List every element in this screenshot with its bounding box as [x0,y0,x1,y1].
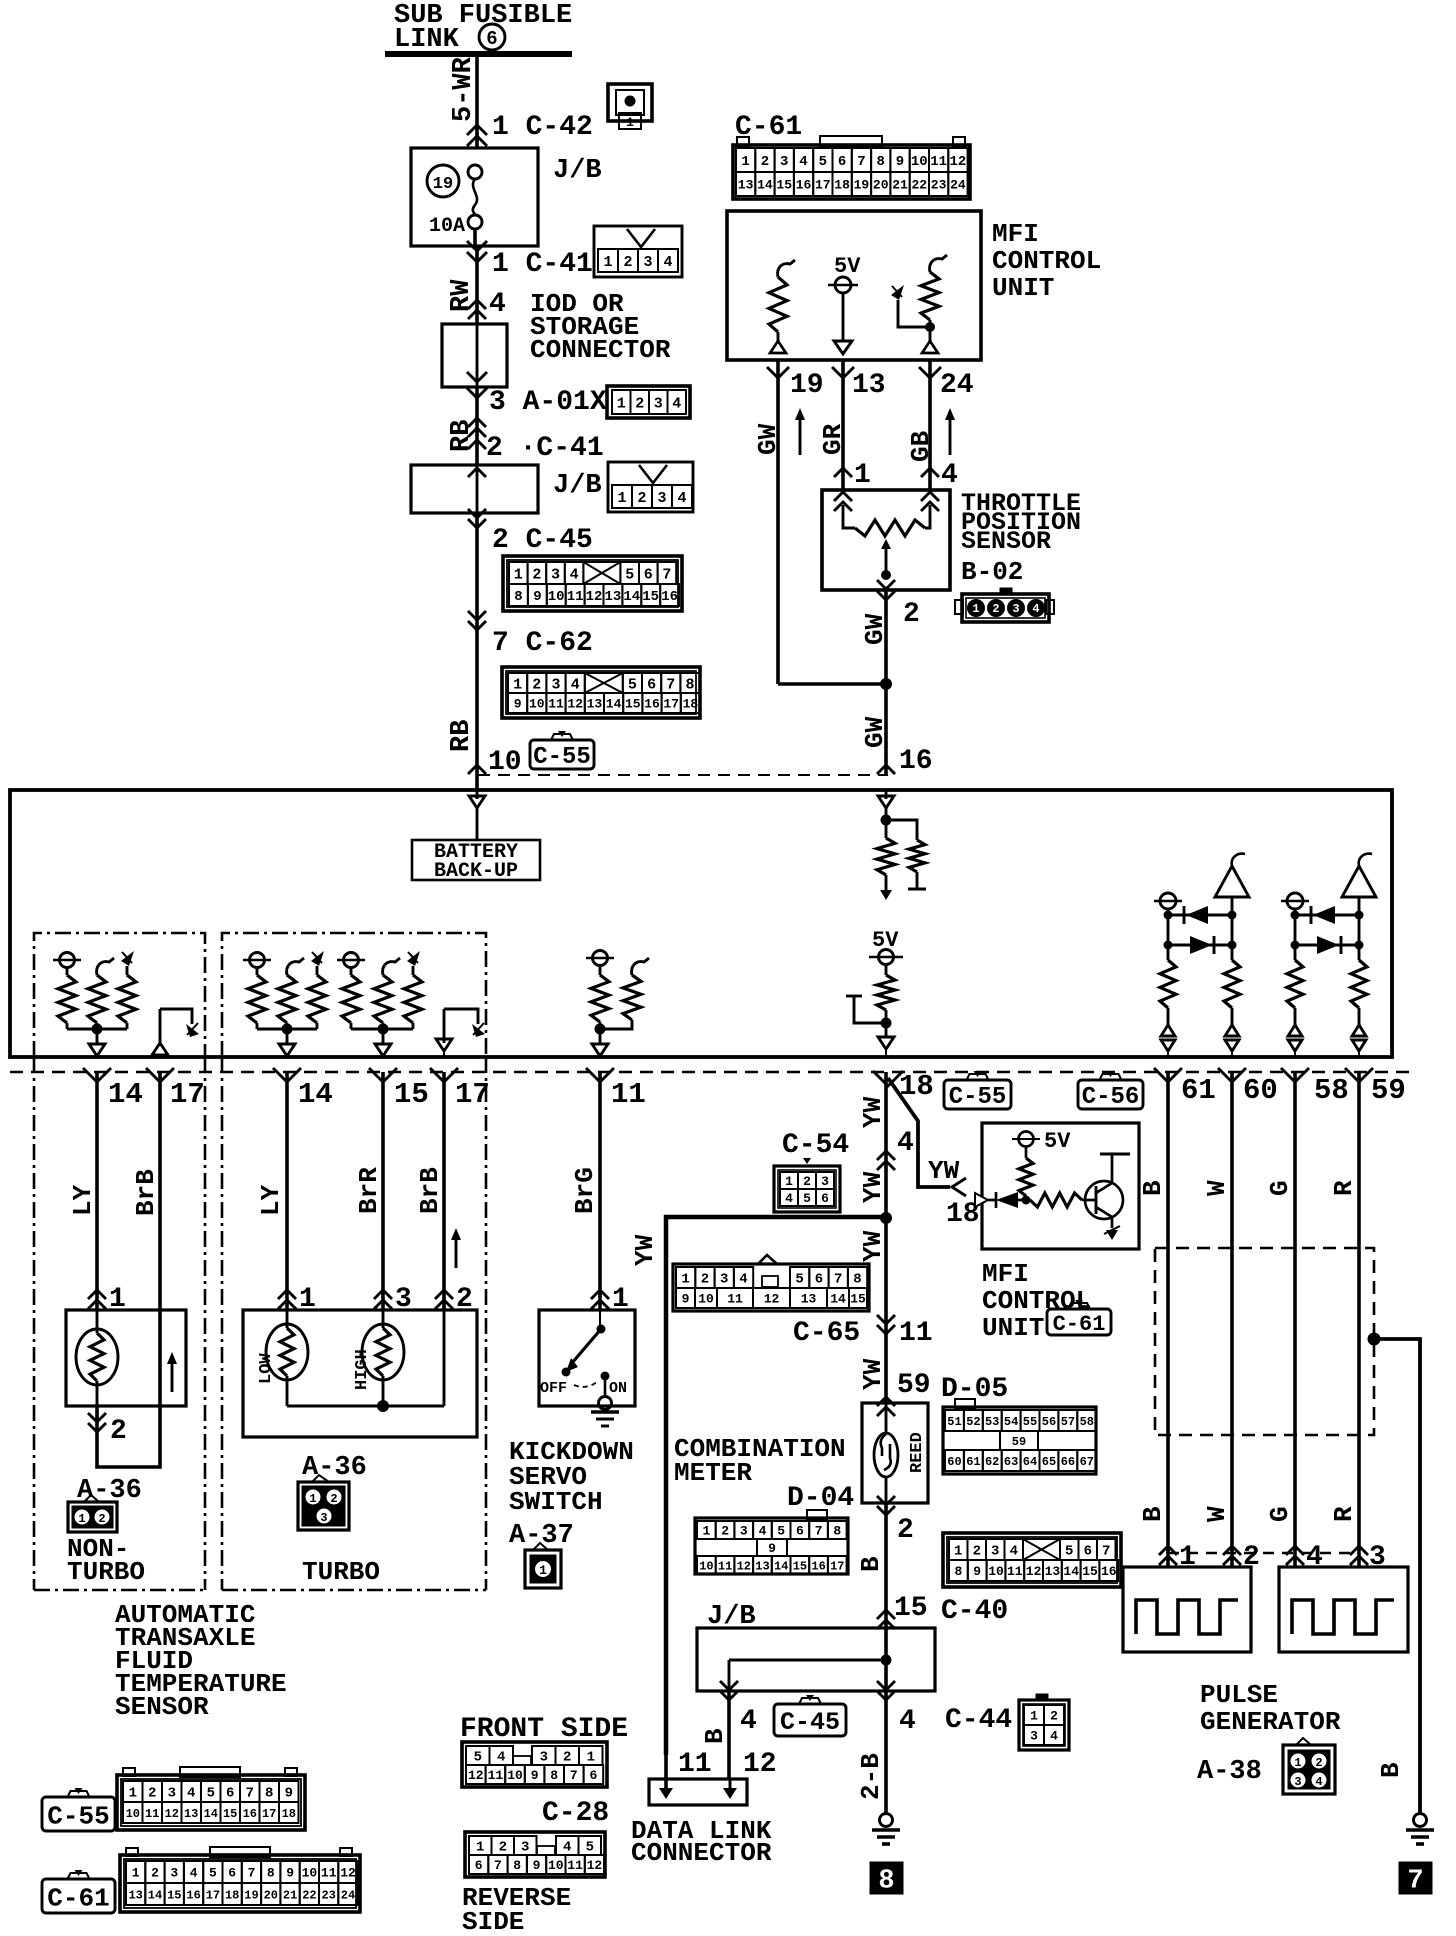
svg-text:2 C-45: 2 C-45 [492,525,593,556]
svg-text:16: 16 [186,1888,200,1902]
svg-text:CONTROL: CONTROL [992,246,1101,276]
connector mark 2 reed [877,1506,895,1515]
svg-text:8: 8 [876,154,884,170]
svg-text:7: 7 [570,1768,578,1783]
svg-text:5: 5 [803,1191,811,1206]
hook terminal 17 non-turbo [152,1043,168,1055]
chain line turbo right [485,1057,488,1590]
svg-text:64: 64 [1023,1455,1037,1469]
svg-text:5: 5 [209,1866,217,1881]
svg-text:3: 3 [740,1524,748,1539]
svg-text:15: 15 [394,1078,429,1111]
svg-text:YW: YW [858,1230,888,1262]
svg-text:4: 4 [497,1750,505,1766]
svg-text:3: 3 [521,1840,529,1856]
svg-text:9: 9 [973,1564,981,1579]
svg-text:22: 22 [911,178,927,193]
svg-text:2: 2 [1050,1709,1058,1724]
connector mark 10 C-55 [468,765,486,774]
svg-text:58: 58 [1080,1415,1094,1429]
connector icon C-62 [502,667,700,718]
connector mark TPS pin1 [834,468,852,477]
svg-text:C-65: C-65 [793,1318,860,1349]
connector icon A-36 turbo [312,1475,329,1482]
connector icon C-54 [803,1158,811,1164]
svg-text:51: 51 [947,1415,961,1429]
wire 2-B ground [884,1691,888,1814]
node meter top [880,1212,892,1224]
svg-text:67: 67 [1080,1455,1094,1469]
connector mark 7 C-62 [468,621,486,630]
svg-text:4: 4 [563,1840,571,1856]
svg-text:10: 10 [302,1866,318,1881]
svg-text:15: 15 [850,1292,866,1307]
svg-text:62: 62 [985,1455,999,1469]
svg-text:7: 7 [857,154,865,170]
svg-text:C-45: C-45 [780,1708,840,1737]
pulse wave 1 [1136,1600,1238,1634]
svg-text:6: 6 [228,1866,236,1881]
svg-text:3: 3 [551,676,560,693]
svg-text:1: 1 [1030,1709,1038,1724]
svg-text:R: R [1329,1506,1359,1522]
wire LY non-turbo [95,1072,99,1310]
svg-text:6: 6 [1084,1544,1092,1560]
svg-text:14: 14 [298,1078,333,1111]
svg-text:1: 1 [681,1272,689,1288]
svg-text:12: 12 [949,154,966,170]
svg-text:10: 10 [988,1564,1004,1579]
svg-text:60: 60 [947,1455,961,1469]
svg-text:BrR: BrR [354,1167,384,1214]
svg-text:12: 12 [1026,1564,1042,1579]
terminal 16 out [885,1023,888,1036]
ground 7 [1414,1814,1427,1827]
connector icon C-61 top [737,137,749,146]
svg-text:24: 24 [940,370,974,401]
connector mark A-36NT pin1 [88,1290,106,1299]
svg-text:13: 13 [755,1559,769,1573]
connector icon A-36 non-turbo [84,1495,99,1502]
svg-text:1: 1 [617,395,626,412]
connector icon A-37 [533,1543,548,1550]
connector mark TPS pin4 [921,468,939,477]
svg-text:1: 1 [514,566,523,583]
svg-text:4: 4 [740,1706,757,1737]
svg-text:5: 5 [625,566,634,583]
svg-text:B: B [1138,1506,1168,1522]
svg-text:12: 12 [764,1292,780,1307]
svg-text:R: R [1329,1180,1359,1196]
svg-text:11: 11 [678,1749,712,1780]
svg-text:3: 3 [540,1750,548,1766]
svg-text:C-56: C-56 [1082,1084,1140,1111]
svg-text:YW: YW [630,1234,660,1266]
connector tag C-56 band [1100,1074,1122,1080]
svg-text:2 ·C-41: 2 ·C-41 [486,433,604,464]
svg-text:15: 15 [642,589,659,605]
svg-text:6: 6 [589,1768,597,1783]
connector tag C-61 bottom [1068,1303,1090,1309]
svg-text:23: 23 [321,1888,335,1902]
svg-text:63: 63 [1004,1455,1018,1469]
svg-text:6: 6 [226,1786,234,1802]
fuse number circle 19 [427,165,459,197]
wire BrB non-turbo [97,1072,160,1467]
connector mark 4 YW [877,1151,895,1160]
svg-text:17: 17 [663,697,679,712]
svg-text:CONNECTOR: CONNECTOR [631,1838,772,1868]
connector icon C-65 [758,1255,777,1264]
svg-text:2: 2 [761,154,769,170]
svg-text:YW: YW [858,1096,888,1128]
svg-text:7: 7 [1407,1867,1423,1897]
svg-text:4: 4 [759,1524,767,1539]
resistor MFI2 [1025,1147,1028,1158]
svg-text:B-02: B-02 [961,557,1023,587]
svg-text:UNIT: UNIT [982,1313,1044,1343]
svg-text:18: 18 [225,1888,239,1902]
J/B3 internal wire [884,1628,888,1691]
svg-text:8: 8 [833,1524,841,1539]
ATF temp sensor non-turbo box [66,1310,186,1406]
svg-text:2: 2 [532,566,541,583]
svg-text:3: 3 [780,154,788,170]
svg-text:2: 2 [992,602,999,616]
connector mark 16 [877,765,895,774]
svg-text:14: 14 [606,697,622,712]
junction block J/B fuse box [411,148,538,246]
svg-text:13: 13 [1045,1564,1061,1579]
svg-text:13: 13 [128,1888,142,1902]
ground ref 8 [870,1862,903,1894]
harness cut dashed line [10,1071,1412,1074]
svg-text:2: 2 [151,1866,159,1881]
svg-text:SIDE: SIDE [462,1907,524,1936]
svg-text:11: 11 [567,589,584,605]
svg-text:58: 58 [1314,1074,1349,1107]
svg-text:GR: GR [818,423,848,455]
wire G pulse [1293,1072,1297,1567]
wire BrG [598,1072,602,1310]
svg-text:14: 14 [148,1888,162,1902]
svg-text:1: 1 [78,1512,85,1526]
connector marks pulse pins [1159,1546,1177,1555]
svg-text:GW: GW [860,716,890,748]
connector icon C-44 [1036,1694,1048,1701]
direction arrow GB [949,418,952,455]
svg-text:13: 13 [604,589,621,605]
svg-text:5: 5 [819,154,827,170]
connector tag C-61 bottom left [68,1873,90,1879]
chain line non-turbo right [204,1057,207,1590]
connector icon A-38 [1296,1738,1311,1745]
svg-text:20: 20 [873,178,889,193]
svg-text:B: B [1138,1180,1168,1196]
svg-text:2: 2 [897,1515,914,1546]
svg-text:METER: METER [674,1458,752,1488]
svg-text:7: 7 [834,1272,842,1288]
svg-text:4: 4 [899,1706,916,1737]
svg-text:3: 3 [1030,1729,1038,1744]
connector icon C-41 [594,226,682,277]
svg-text:15: 15 [1082,1564,1098,1579]
DLC pin arrows [665,1779,668,1796]
svg-text:8: 8 [267,1866,275,1881]
ATF temp sensor turbo box [243,1310,477,1437]
svg-text:60: 60 [1243,1074,1278,1107]
hook stub 16 [846,995,862,998]
svg-text:11: 11 [930,154,947,170]
sub fusible link bus [385,51,572,57]
svg-text:1: 1 [129,1786,137,1802]
wire RB upper [475,387,479,465]
wire GB from pin24 [928,360,932,490]
wire YW main [884,1072,888,1218]
svg-text:12: 12 [587,1858,603,1873]
svg-text:LY: LY [68,1184,98,1216]
svg-text:A-36: A-36 [302,1453,367,1483]
svg-text:RW: RW [447,279,477,312]
connector mark 3 A-01X [468,418,486,427]
svg-text:W: W [1202,1180,1232,1196]
wire in IOD box [476,324,479,387]
svg-text:BrG: BrG [570,1167,600,1214]
IOD or storage connector box [442,324,507,387]
hook terminal 17 turbo [436,1039,452,1051]
wire YW down to DLC [664,1217,668,1790]
svg-text:SENSOR: SENSOR [961,527,1051,556]
svg-text:10A: 10A [429,215,465,238]
svg-text:2: 2 [148,1786,156,1802]
connector tag C-55 bottom [68,1791,90,1797]
svg-text:2-B: 2-B [856,1753,886,1800]
svg-text:59: 59 [897,1370,931,1401]
svg-text:15: 15 [625,697,641,712]
svg-text:14: 14 [830,1292,846,1307]
svg-text:23: 23 [931,178,947,193]
direction arrow GW [799,418,802,455]
svg-text:9: 9 [531,1768,539,1783]
svg-text:16: 16 [899,746,933,777]
svg-text:GW: GW [753,423,783,455]
svg-text:9: 9 [768,1541,776,1556]
node 16 junction [885,808,888,820]
battery back-up wire [476,808,479,840]
wire RW [475,246,479,324]
svg-text:4: 4 [187,1786,195,1802]
svg-text:11: 11 [718,1559,732,1573]
svg-text:14: 14 [1063,1564,1079,1579]
svg-text:C-61: C-61 [47,1883,109,1913]
svg-text:1 C-41: 1 C-41 [492,249,593,280]
svg-text:BrB: BrB [415,1167,445,1214]
branch YW to MFI2 [888,1078,950,1187]
resistor in MFI pin24 [930,255,947,272]
svg-text:1: 1 [476,1840,484,1856]
connector tag C-55 top [551,734,573,740]
connector marks turbo pins [278,1290,296,1299]
svg-text:66: 66 [1061,1455,1075,1469]
connector icon C-28 reverse [465,1832,605,1877]
svg-text:1: 1 [626,115,634,130]
svg-text:4: 4 [897,1128,914,1159]
svg-text:2: 2 [903,599,920,630]
svg-text:1: 1 [587,1750,595,1766]
svg-text:5: 5 [795,1272,803,1288]
chain line non-turbo left [33,1057,36,1590]
svg-text:3: 3 [657,490,666,507]
connector mark 4 [468,300,486,309]
svg-text:8: 8 [265,1786,273,1802]
kickdown switch [599,1310,601,1329]
svg-text:10: 10 [488,747,522,778]
svg-text:9: 9 [533,1858,541,1873]
svg-text:8: 8 [853,1272,861,1288]
connector mark A-37 pin1 [591,1290,609,1299]
svg-text:1: 1 [741,154,749,170]
svg-text:5: 5 [1065,1544,1073,1560]
svg-text:C-61: C-61 [1053,1312,1106,1337]
svg-text:19: 19 [244,1888,258,1902]
svg-text:A-37: A-37 [509,1521,574,1551]
svg-text:17: 17 [262,1807,276,1821]
svg-text:8: 8 [514,589,522,605]
wire R pulse [1357,1072,1361,1567]
svg-text:LINK: LINK [394,25,460,55]
svg-text:21: 21 [892,178,908,193]
svg-text:2: 2 [623,254,632,271]
svg-text:12: 12 [468,1768,484,1783]
MFI control unit box [727,211,981,360]
svg-text:59: 59 [1371,1074,1406,1107]
connector icon C-41 second [608,462,693,512]
svg-text:2: 2 [563,1750,571,1766]
svg-text:OFF: OFF [540,1380,567,1397]
svg-text:4: 4 [1315,1775,1322,1789]
TPS potentiometer [843,505,855,528]
svg-text:2: 2 [499,1840,507,1856]
svg-text:18: 18 [683,697,699,712]
svg-text:C-44: C-44 [945,1705,1012,1736]
svg-text:19: 19 [854,178,870,193]
svg-text:6: 6 [838,154,846,170]
svg-text:8: 8 [878,1867,894,1897]
svg-text:6: 6 [815,1272,823,1288]
svg-text:2: 2 [803,1174,811,1189]
svg-text:11: 11 [899,1318,933,1349]
svg-text:19: 19 [790,370,824,401]
svg-text:13: 13 [587,697,603,712]
svg-text:11: 11 [548,697,564,712]
wire through J/B2 [476,465,479,513]
connector mark A-36NT pin2 [88,1423,106,1432]
ATF sensor element non-turbo [76,1329,118,1385]
svg-text:11: 11 [488,1768,504,1783]
svg-text:7: 7 [1102,1544,1110,1560]
svg-text:J/B: J/B [553,156,602,186]
connector mark JB3 right out [877,1691,895,1700]
svg-text:17: 17 [206,1888,220,1902]
svg-text:11: 11 [567,1858,583,1873]
svg-text:12: 12 [340,1866,356,1881]
junction block J/B box 2 [411,465,538,513]
ground kickdown [599,1397,612,1410]
diode network pulse gen 1 [1160,893,1176,909]
svg-text:7 C-62: 7 C-62 [492,628,593,659]
pulse generator box 1 [1123,1567,1251,1652]
svg-text:17: 17 [830,1559,844,1573]
connector mark 1 C-41 [467,252,487,262]
svg-text:15: 15 [167,1888,181,1902]
wire YW to reed [884,1334,888,1403]
svg-text:HIGH: HIGH [353,1349,372,1390]
svg-text:11: 11 [145,1807,159,1821]
svg-text:B: B [700,1728,730,1744]
connector icon C-61 bottom [126,1848,138,1856]
connector icon D-05 [955,1399,975,1408]
svg-text:8: 8 [550,1768,558,1783]
svg-text:LOW: LOW [257,1353,276,1384]
svg-text:1 C-42: 1 C-42 [492,112,593,143]
svg-text:8: 8 [954,1564,962,1579]
svg-text:GB: GB [906,430,936,462]
connector marks MFI pins [767,367,789,378]
connector mark 2 C-41 [468,440,486,449]
svg-text:11: 11 [611,1078,646,1111]
svg-text:11: 11 [1007,1564,1023,1579]
resistor 16-c [885,965,888,975]
svg-text:16: 16 [661,589,678,605]
svg-text:5: 5 [207,1786,215,1802]
svg-text:21: 21 [283,1888,297,1902]
svg-text:2: 2 [721,1524,729,1539]
resistor group kickdown [593,951,608,966]
combination meter outline [666,1217,885,1755]
svg-text:16: 16 [796,178,812,193]
wire BrB turbo [442,1072,446,1310]
svg-text:13: 13 [852,370,886,401]
svg-text:3: 3 [720,1272,728,1288]
svg-text:BrB: BrB [131,1169,161,1216]
svg-text:YW: YW [858,1171,888,1203]
svg-text:4: 4 [190,1866,198,1881]
svg-text:C-55: C-55 [533,744,591,771]
svg-text:3: 3 [643,254,652,271]
svg-text:BACK-UP: BACK-UP [434,860,518,883]
chain box turbo top [222,933,486,1057]
svg-text:3: 3 [991,1544,999,1560]
svg-text:2: 2 [532,676,541,693]
svg-text:1: 1 [785,1174,793,1189]
connector icon C-45 [503,556,682,611]
cut line dashed C-55 [478,774,888,776]
svg-text:ON: ON [609,1380,627,1397]
svg-text:15: 15 [776,178,792,193]
cut mark 18 [873,1071,903,1086]
svg-text:GENERATOR: GENERATOR [1200,1707,1341,1737]
svg-text:SWITCH: SWITCH [509,1487,603,1517]
svg-text:17: 17 [170,1078,205,1111]
svg-text:19: 19 [433,175,453,194]
svg-text:C-28: C-28 [542,1798,609,1829]
svg-text:14: 14 [623,589,640,605]
5V supply MFI2 [1019,1132,1034,1147]
wire 5-WR [475,54,479,148]
svg-text:J/B: J/B [553,471,602,501]
svg-text:4: 4 [739,1272,747,1288]
svg-text:2: 2 [98,1512,105,1526]
